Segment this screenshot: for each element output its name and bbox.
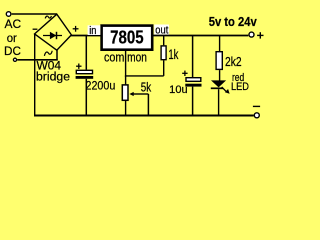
wire: bridge + output to 7805 in [71,35,101,37]
wire: common node horizontal to 1k [125,75,164,77]
wire: 7805 common pin down [125,51,127,77]
resistor R2 2k2: body [216,52,222,70]
svg-text:bridge: bridge [36,70,70,84]
capacitor C1 2200u: minus plate (solid) [76,76,94,79]
label: out (white background) [154,25,169,35]
svg-text:1k: 1k [168,46,179,62]
capacitor C2 10u: top lead [192,36,194,78]
potentiometer VR1 5k: bottom lead to rail [125,101,127,116]
bridge minus output mark [33,28,38,30]
wire: ground rail [34,115,254,117]
LED D1: bottom lead to rail [218,89,220,116]
svg-text:mon: mon [127,50,147,65]
capacitor C2 10u: bottom lead [192,87,194,116]
bridge plus output mark [73,26,79,32]
svg-text:5v to 24v: 5v to 24v [209,14,258,29]
resistor R1 1k: bottom lead [163,60,165,76]
wire: bridge - output down to ground rail [34,34,36,116]
wire: top AC input to bridge top corner [12,13,57,15]
resistor R1 1k: body [161,46,166,60]
wire: common node down to 5k pot [125,76,127,85]
resistor R2 2k2: top lead [219,36,221,52]
svg-text:com: com [104,50,124,65]
potentiometer VR1 5k: wiper arrow [129,92,133,96]
terminal: AC input top [6,12,11,17]
svg-text:DC: DC [4,44,21,58]
wire: bottom DC input to below bridge [17,59,58,61]
diode inside bridge: line [43,35,62,37]
svg-text:in: in [89,25,96,37]
potentiometer VR1 5k: body [122,85,128,100]
svg-text:LED: LED [231,81,249,93]
resistor R1 1k: top lead [163,36,165,46]
diode inside bridge: anode triangle [50,32,56,40]
svg-text:AC: AC [5,17,22,31]
bridge rectifier BR1 diamond [35,14,72,50]
wire: 7805 out to + terminal [153,35,248,37]
svg-text:5k: 5k [141,80,152,94]
label: in (white background) [88,25,101,35]
svg-text:7805: 7805 [110,27,144,48]
capacitor C2 10u: minus plate (solid) [185,84,201,87]
capacitor C2 10u: plus plate (outlined) [186,78,201,82]
capacitor C2 polarity plus [182,71,187,76]
terminal: - output [254,113,259,118]
diode inside bridge: cathode bar [56,32,58,39]
terminal: DC input bottom [13,58,16,61]
svg-text:2k2: 2k2 [225,54,242,69]
svg-text:10u: 10u [169,84,187,96]
capacitor C1 2200u: plus plate (outlined) [76,70,92,73]
wire: wiper down to rail [147,94,149,116]
capacitor C1 2200u: top lead [85,36,87,70]
regulator U1 7805 body [102,26,153,50]
LED D1: cathode bar [211,87,223,89]
terminal: + output [249,32,254,37]
capacitor C1 2200u: bottom lead [85,79,87,116]
capacitor C1 polarity plus [76,64,81,69]
bridge AC mark bottom (~) [44,51,52,56]
LED D1: anode triangle [211,80,226,87]
label: + output polarity [257,32,263,38]
resistor R2 2k2: bottom lead [219,70,221,81]
wire: riser to bridge bottom corner [56,50,58,61]
label: - output polarity [253,105,260,107]
svg-text:2200u: 2200u [86,79,116,93]
bridge AC mark top (~) [45,16,51,19]
wire: wiper horizontal [133,93,149,95]
LED D1: emission arrow [222,87,230,94]
